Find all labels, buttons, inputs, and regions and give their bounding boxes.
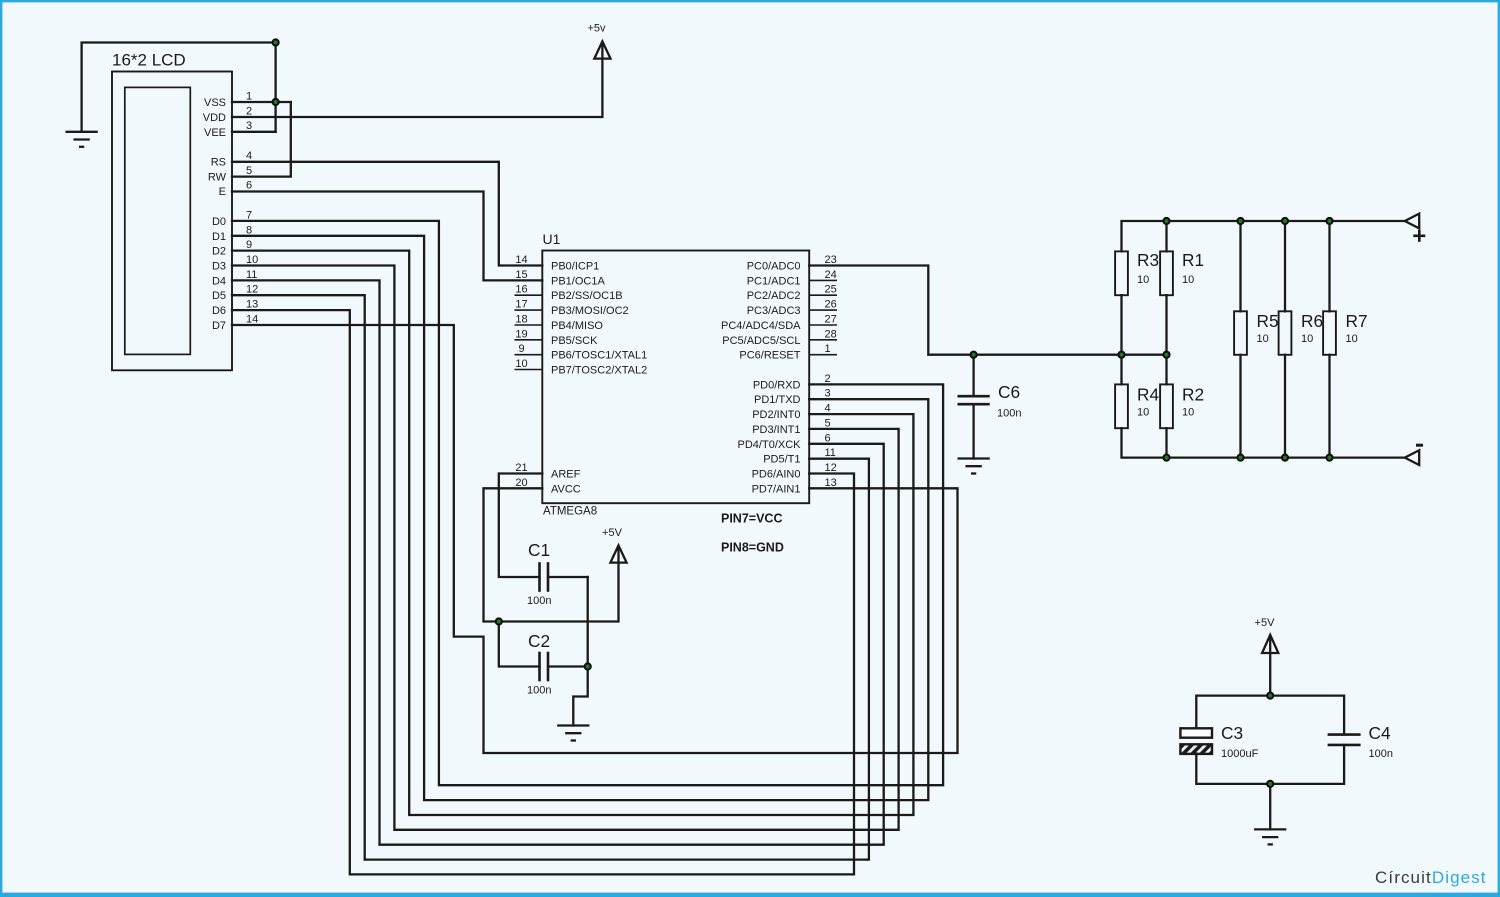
svg-text:PC2/ADC2: PC2/ADC2 (747, 290, 801, 302)
capacitor C3 positive plate (1180, 728, 1212, 737)
svg-text:R5: R5 (1257, 311, 1279, 331)
wire VSS/VEE vertical (274, 43, 276, 132)
svg-text:PD2/INT0: PD2/INT0 (752, 409, 800, 421)
svg-text:100n: 100n (527, 595, 551, 607)
svg-text:PB5/SCK: PB5/SCK (551, 335, 598, 347)
svg-text:PB2/SS/OC1B: PB2/SS/OC1B (551, 290, 623, 302)
wire AREF to C1 (499, 474, 543, 578)
svg-text:PC3/ADC3: PC3/ADC3 (747, 305, 801, 317)
resistor R2 (1160, 384, 1173, 428)
wire D4 to PD4 (232, 280, 884, 844)
svg-text:27: 27 (825, 314, 837, 326)
svg-text:VDD: VDD (203, 112, 226, 124)
wire R3 to mid node (1120, 295, 1122, 384)
svg-text:4: 4 (246, 150, 252, 162)
svg-text:3: 3 (246, 120, 252, 132)
pin stub PC1 (809, 279, 837, 281)
svg-text:PD7/AIN1: PD7/AIN1 (752, 483, 801, 495)
svg-text:11: 11 (246, 269, 257, 281)
svg-text:20: 20 (515, 477, 527, 489)
ground symbol (C3/C4) (1255, 829, 1285, 844)
node R1 top junction (1163, 218, 1169, 224)
wire ground to top rail (82, 43, 276, 132)
power +5V arrow (near C1) (610, 545, 626, 562)
svg-text:E: E (219, 186, 226, 198)
svg-text:10: 10 (515, 358, 527, 370)
svg-text:PB7/TOSC2/XTAL2: PB7/TOSC2/XTAL2 (551, 365, 647, 377)
svg-text:14: 14 (515, 254, 527, 266)
node AREF/AVCC/C2 junction (496, 618, 502, 624)
svg-text:100n: 100n (997, 408, 1021, 420)
svg-text:R4: R4 (1137, 385, 1159, 405)
label + (1413, 230, 1425, 242)
wire R6 column top (1284, 221, 1286, 311)
svg-text:10: 10 (1346, 333, 1358, 345)
wire R5 column top (1239, 221, 1241, 311)
svg-text:CírcuitDigest: CírcuitDigest (1375, 868, 1487, 887)
svg-text:ATMEGA8: ATMEGA8 (543, 506, 597, 518)
svg-text:D4: D4 (212, 275, 226, 287)
capacitor C3 negative plate (hatched) (1180, 744, 1212, 754)
resistor R5 (1234, 311, 1247, 355)
svg-text:RW: RW (208, 171, 227, 183)
svg-text:19: 19 (515, 328, 527, 340)
svg-text:10: 10 (1182, 274, 1194, 286)
wire D7 to PD7 (232, 325, 958, 753)
node C2 right junction (585, 663, 591, 669)
wire D6 to PD6 (232, 310, 854, 874)
wire AVCC to +5V rail (484, 488, 543, 621)
svg-text:+5v: +5v (587, 23, 606, 35)
capacitor C4 (1329, 735, 1359, 745)
wire +5V to top rail (1269, 637, 1271, 696)
resistor R7 (1323, 311, 1336, 355)
svg-text:VSS: VSS (204, 97, 226, 109)
node VSS junction (273, 99, 279, 105)
svg-text:D0: D0 (212, 216, 226, 228)
pin stub PC5 (809, 339, 837, 341)
svg-text:AVCC: AVCC (551, 483, 581, 495)
wire E pin 6 to PB1 (232, 192, 542, 281)
svg-text:9: 9 (246, 239, 252, 251)
svg-text:PC4/ADC4/SDA: PC4/ADC4/SDA (721, 320, 801, 332)
svg-text:9: 9 (518, 343, 524, 355)
node R2 bottom junction (1163, 455, 1169, 461)
svg-text:26: 26 (825, 299, 837, 311)
svg-text:D2: D2 (212, 246, 226, 258)
LCD LCD1 16*2 LCD body (112, 72, 232, 371)
wire R7 to bottom rail (1328, 355, 1330, 458)
svg-text:PD4/T0/XCK: PD4/T0/XCK (738, 439, 802, 451)
svg-text:6: 6 (825, 432, 831, 444)
svg-text:6: 6 (246, 180, 252, 192)
pin stub PB6 (515, 354, 543, 356)
pin stub PB2 (515, 294, 543, 296)
svg-text:D7: D7 (212, 320, 226, 332)
node R6 bottom junction (1282, 455, 1288, 461)
svg-text:R7: R7 (1346, 311, 1368, 331)
svg-text:C6: C6 (998, 382, 1020, 402)
svg-text:14: 14 (246, 314, 258, 326)
svg-text:PC0/ADC0: PC0/ADC0 (747, 261, 801, 273)
svg-text:4: 4 (825, 403, 831, 415)
svg-text:5: 5 (246, 165, 252, 177)
capacitor C1 (540, 564, 588, 591)
svg-text:D1: D1 (212, 231, 226, 243)
node R3/R4 mid junction (1118, 352, 1124, 358)
wire R1 column top (1165, 221, 1167, 251)
frame border bottom edge (0, 894, 1500, 897)
svg-text:15: 15 (515, 269, 527, 281)
svg-text:1000uF: 1000uF (1221, 748, 1259, 760)
resistor R1 (1160, 251, 1173, 295)
svg-text:R1: R1 (1182, 250, 1204, 270)
svg-text:PB0/ICP1: PB0/ICP1 (551, 261, 599, 273)
terminal + triangle (1405, 214, 1419, 229)
svg-text:PD6/AIN0: PD6/AIN0 (752, 469, 801, 481)
svg-text:10: 10 (1137, 274, 1149, 286)
svg-text:100n: 100n (527, 685, 551, 697)
wire D1 to PD1 (232, 236, 928, 800)
ground symbol (left of LCD) (67, 132, 97, 147)
capacitor C2 (540, 653, 588, 680)
node R5 top junction (1237, 218, 1243, 224)
pin stub PB3 (515, 309, 543, 311)
terminal - triangle (1405, 450, 1419, 465)
svg-text:13: 13 (246, 299, 258, 311)
pin stub PC4 (809, 324, 837, 326)
svg-text:28: 28 (825, 328, 837, 340)
svg-text:PD0/RXD: PD0/RXD (753, 379, 801, 391)
LCD display window (125, 87, 191, 354)
svg-text:10: 10 (1137, 407, 1149, 419)
svg-text:C4: C4 (1369, 723, 1391, 743)
svg-text:1: 1 (246, 91, 252, 103)
svg-text:D5: D5 (212, 290, 226, 302)
svg-text:PIN7=VCC: PIN7=VCC (721, 512, 782, 526)
wire D0 to PD0 (232, 221, 943, 785)
svg-text:D6: D6 (212, 305, 226, 317)
svg-text:11: 11 (825, 447, 836, 459)
wire R5 to bottom rail (1239, 355, 1241, 458)
pin stub PB4 (515, 324, 543, 326)
svg-text:2: 2 (825, 373, 831, 385)
pin stub PB5 (515, 339, 543, 341)
wire C3 bottom leg (1196, 745, 1344, 784)
svg-text:U1: U1 (543, 231, 561, 247)
wire VEE pin 3 (232, 131, 276, 133)
svg-text:10: 10 (246, 254, 258, 266)
svg-text:PD3/INT1: PD3/INT1 (752, 424, 800, 436)
svg-text:D3: D3 (212, 261, 226, 273)
svg-text:C1: C1 (528, 540, 550, 560)
svg-text:PIN8=GND: PIN8=GND (721, 541, 784, 555)
svg-text:7: 7 (246, 209, 252, 221)
ground symbol (C6) (959, 459, 989, 474)
node R5 bottom junction (1237, 455, 1243, 461)
wire R6 to bottom rail (1284, 355, 1286, 458)
ground symbol (C2) (558, 726, 588, 741)
capacitor C6 (959, 355, 989, 459)
wire R1 to mid node (1165, 295, 1167, 384)
svg-text:VEE: VEE (204, 127, 226, 139)
label - (1416, 444, 1423, 447)
svg-text:R6: R6 (1301, 311, 1323, 331)
svg-text:8: 8 (246, 224, 252, 236)
svg-text:12: 12 (825, 462, 837, 474)
svg-text:16*2 LCD: 16*2 LCD (112, 51, 186, 70)
svg-text:PD5/T1: PD5/T1 (763, 454, 800, 466)
svg-text:18: 18 (515, 314, 527, 326)
svg-text:24: 24 (825, 269, 837, 281)
svg-text:13: 13 (825, 477, 837, 489)
wire C2 left leg (499, 622, 540, 667)
node R7 bottom junction (1326, 455, 1332, 461)
pin stub PC3 (809, 309, 837, 311)
wire VSS pin 1 (232, 101, 291, 103)
wire bottom rail to ground (1269, 784, 1271, 830)
wire +5V rail (AVCC/C1/C2 node) (499, 548, 619, 622)
resistor R4 (1115, 384, 1128, 428)
svg-text:21: 21 (515, 462, 527, 474)
svg-text:PC1/ADC1: PC1/ADC1 (747, 275, 801, 287)
svg-text:10: 10 (1257, 333, 1269, 345)
svg-text:AREF: AREF (551, 469, 581, 481)
svg-text:PB1/OC1A: PB1/OC1A (551, 275, 605, 287)
wire D3 to PD3 (232, 266, 899, 830)
svg-text:1: 1 (825, 343, 831, 355)
svg-text:+5V: +5V (1255, 617, 1276, 629)
svg-text:PB6/TOSC1/XTAL1: PB6/TOSC1/XTAL1 (551, 350, 647, 362)
node R1/R2 mid junction (1163, 352, 1169, 358)
svg-text:PB4/MISO: PB4/MISO (551, 320, 603, 332)
svg-text:2: 2 (246, 105, 252, 117)
svg-text:PB3/MOSI/OC2: PB3/MOSI/OC2 (551, 305, 629, 317)
node R6 top junction (1282, 218, 1288, 224)
wire R4 to bottom rail (1122, 428, 1405, 457)
wire C1 right to C2 right (587, 577, 589, 667)
wire D5 to PD5 (232, 295, 869, 859)
svg-text:R2: R2 (1182, 385, 1204, 405)
wire C3/C4 top rail (1196, 696, 1344, 735)
pin stub PB7 (515, 369, 543, 371)
resistor R3 (1115, 251, 1128, 295)
svg-text:12: 12 (246, 284, 258, 296)
wire R2 to bottom rail (1165, 428, 1167, 457)
svg-text:C3: C3 (1221, 723, 1243, 743)
wire VDD pin 2 to +5v (232, 44, 602, 118)
svg-text:R3: R3 (1137, 250, 1159, 270)
svg-text:5: 5 (825, 417, 831, 429)
svg-text:10: 10 (1301, 333, 1313, 345)
wire PC0 to divider mid node (809, 266, 1166, 355)
wire D2 to PD2 (232, 251, 913, 815)
node ground bottom junction (1267, 781, 1273, 787)
svg-text:PD1/TXD: PD1/TXD (754, 394, 801, 406)
svg-text:23: 23 (825, 254, 837, 266)
svg-text:25: 25 (825, 284, 837, 296)
svg-text:C2: C2 (528, 631, 550, 651)
wire RW pin 5 to VSS net (232, 102, 291, 177)
pin stub PC2 (809, 294, 837, 296)
node +5V top junction (1267, 693, 1273, 699)
wire R7 column top (1328, 221, 1330, 311)
node top corner junction (273, 39, 279, 45)
svg-text:RS: RS (211, 157, 226, 169)
IC U1 ATMEGA8 body (542, 251, 809, 504)
wire top rail (+) (1122, 221, 1405, 251)
power +5V arrow (C3/C4) (1262, 635, 1278, 653)
svg-text:PC6/RESET: PC6/RESET (739, 350, 800, 362)
power +5v arrow (top) (594, 41, 610, 58)
node C6 top junction (971, 352, 977, 358)
resistor R6 (1279, 311, 1292, 355)
svg-text:17: 17 (515, 299, 527, 311)
svg-text:10: 10 (1182, 407, 1194, 419)
svg-text:16: 16 (515, 284, 527, 296)
node R7 top junction (1326, 218, 1332, 224)
svg-text:PC5/ADC5/SCL: PC5/ADC5/SCL (722, 335, 800, 347)
svg-text:100n: 100n (1369, 748, 1393, 760)
wire C2 to ground (573, 667, 587, 726)
pin stub PC6 (809, 354, 837, 356)
svg-text:3: 3 (825, 388, 831, 400)
svg-text:+5V: +5V (602, 527, 623, 539)
wire RS pin 4 to PB0 (232, 162, 542, 266)
